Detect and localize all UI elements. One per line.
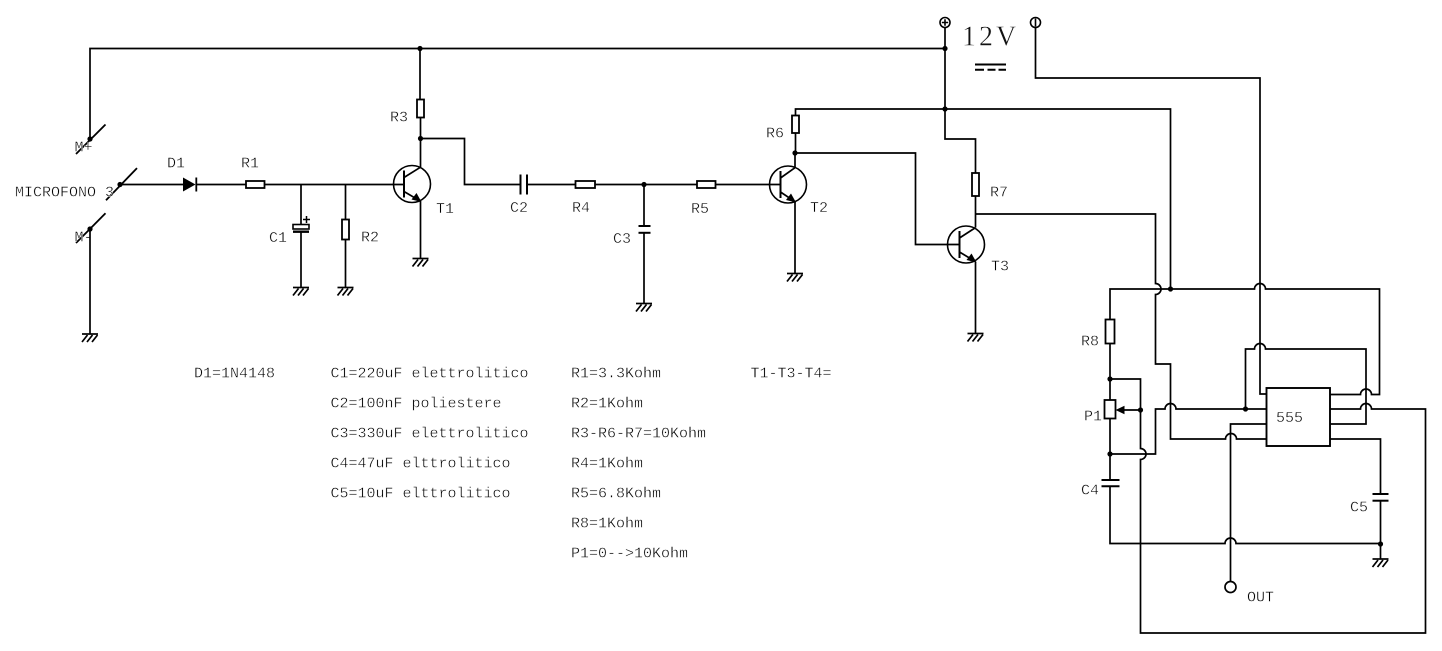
ground under C3 [636, 304, 652, 312]
svg-text:C3: C3 [613, 231, 631, 248]
ground under T1 [413, 259, 429, 267]
svg-text:R7: R7 [990, 185, 1008, 202]
svg-text:R4: R4 [572, 200, 590, 217]
potentiometer P1 [1105, 400, 1141, 419]
wire microphone to D1 [120, 184, 183, 186]
svg-text:C2=100nF poliestere: C2=100nF poliestere [331, 396, 502, 413]
wire R7 junction to 555 pin2 (left pin y439) [976, 214, 1267, 439]
transistor T2 [770, 166, 807, 203]
ground under C1 [293, 288, 309, 296]
svg-text:OUT: OUT [1247, 590, 1274, 607]
capacitor C3 [639, 226, 651, 233]
wire R6 bottom to dot [795, 133, 797, 153]
svg-text:R4=1Kohm: R4=1Kohm [571, 456, 643, 473]
svg-text:T1-T3-T4=: T1-T3-T4= [751, 366, 832, 383]
wire top supply rail [90, 49, 945, 140]
svg-text:T1: T1 [436, 201, 454, 218]
resistor R6 [792, 116, 799, 134]
wire T2 emitter to ground [794, 202, 796, 274]
resistor R1 [246, 181, 265, 188]
IC 555 [1267, 388, 1331, 446]
svg-text:555: 555 [1276, 410, 1303, 427]
node junction dot C5 ground [1378, 541, 1383, 546]
wire P1 bottom to C4 [1109, 419, 1111, 481]
ground under T3 [968, 334, 984, 342]
ground under T2 [787, 274, 803, 282]
wire P1 wiper outer loop to 555 pin7 (right y409) [1141, 404, 1426, 633]
wire C5 to ground dot [1380, 501, 1382, 559]
wire C4 bottom to C5 ground line [1110, 486, 1381, 543]
wire T2 collector to T3 base [795, 153, 960, 245]
ground under R2 [338, 288, 354, 296]
svg-text:R3: R3 [390, 110, 408, 127]
node junction dot T1 collector [418, 136, 423, 141]
svg-text:T2: T2 [810, 200, 828, 217]
node junction dot at R3 top rail [417, 46, 422, 51]
node junction dot supply to R8 line [1168, 286, 1173, 291]
wire + terminal down to R7 [945, 28, 976, 174]
svg-text:R5: R5 [691, 201, 709, 218]
node junction dot T2 collector [792, 150, 797, 155]
svg-text:P1: P1 [1084, 409, 1102, 426]
capacitor C2 [521, 175, 528, 195]
svg-text:R1=3.3Kohm: R1=3.3Kohm [571, 366, 661, 383]
wire M- to ground [89, 229, 91, 334]
svg-text:R8: R8 [1081, 334, 1099, 351]
wire threshold up over 555 to right pin y424 [1246, 344, 1367, 425]
terminal I [1031, 18, 1041, 28]
svg-text:C1=220uF elettrolitico: C1=220uF elettrolitico [331, 366, 529, 383]
node junction dot threshold [1243, 406, 1248, 411]
wire R4 to R5 [595, 184, 697, 186]
node junction dot P1 bottom [1107, 451, 1112, 456]
node junction dot P1 wiper [1138, 407, 1143, 412]
wire R8 bottom to P1 top [1109, 344, 1111, 401]
node junction dot at + terminal rail [942, 46, 947, 51]
svg-text:P1=0-->10Kohm: P1=0-->10Kohm [571, 546, 688, 563]
resistor R5 [697, 181, 716, 188]
wire T2 collector [794, 153, 796, 168]
power terminal plus [940, 18, 950, 28]
resistor R7 [972, 173, 979, 196]
svg-text:C2: C2 [510, 200, 528, 217]
wire C2 to R4 [527, 184, 576, 186]
svg-text:C4=47uF elttrolitico: C4=47uF elttrolitico [331, 456, 511, 473]
svg-text:12V: 12V [962, 22, 1019, 53]
diode D1 [183, 178, 196, 192]
node junction dot supply at R6 rail [942, 106, 947, 111]
wire C1 branch [300, 185, 302, 288]
ground under M- [82, 334, 98, 342]
wire R1 to T1 base [265, 184, 405, 186]
battery DC symbol [975, 65, 1006, 70]
switch M+ [76, 125, 106, 155]
svg-text:T3: T3 [991, 259, 1009, 276]
resistor R4 [576, 181, 596, 188]
svg-text:C5: C5 [1350, 500, 1368, 517]
terminal OUT circle [1225, 582, 1236, 593]
resistor R8 [1106, 320, 1115, 344]
svg-text:R2: R2 [361, 230, 379, 247]
node junction dot R8-P1 [1107, 376, 1112, 381]
wire T3 emitter to ground [975, 262, 977, 334]
wire 555 pin1 to C5 [1330, 439, 1381, 494]
capacitor C1 [293, 216, 310, 232]
ground under C5 [1373, 559, 1389, 567]
transistor T1 [394, 166, 431, 203]
svg-text:R8=1Kohm: R8=1Kohm [571, 516, 643, 533]
wire T1 emitter to ground [420, 201, 422, 258]
svg-text:C4: C4 [1081, 483, 1099, 500]
svg-text:R3-R6-R7=10Kohm: R3-R6-R7=10Kohm [571, 426, 706, 443]
resistor R2 [342, 220, 349, 240]
wire R2 branch [345, 185, 347, 288]
wire R8 dot to wiper [1110, 379, 1141, 410]
svg-text:D1: D1 [167, 156, 185, 173]
capacitor C5 [1373, 494, 1389, 501]
svg-text:R6: R6 [766, 126, 784, 143]
capacitor C4 [1102, 480, 1120, 486]
svg-text:R1: R1 [241, 156, 259, 173]
switch M- [76, 213, 106, 243]
wire R5 to T2 base [716, 184, 781, 186]
svg-text:C5=10uF elttrolitico: C5=10uF elttrolitico [331, 486, 511, 503]
svg-text:C1: C1 [269, 230, 287, 247]
wire 555 output pin to OUT [1231, 424, 1267, 582]
wire R6 top to supply [796, 109, 1171, 289]
svg-text:C3=330uF elettrolitico: C3=330uF elettrolitico [331, 426, 529, 443]
wire C3 branch [643, 185, 645, 304]
transistor T3 [948, 226, 985, 263]
node junction dot C3 [641, 182, 646, 187]
wire T1 collector jog to C2 [421, 139, 521, 185]
svg-text:R5=6.8Kohm: R5=6.8Kohm [571, 486, 661, 503]
svg-text:D1=1N4148: D1=1N4148 [194, 366, 275, 383]
wire supply rail to R8 and 555 pin8 [1110, 284, 1380, 395]
wire trigger line P1 bottom to 555 pin6 (left y409) [1110, 404, 1267, 454]
wire D1 to R1 [196, 184, 246, 186]
wire I terminal to 555 pin4 [1036, 28, 1267, 395]
wire R7 to T3 collector [975, 196, 977, 228]
wire R3 to T1 collector [420, 118, 422, 168]
resistor R3 [417, 100, 424, 118]
svg-text:MICROFONO 3: MICROFONO 3 [15, 185, 114, 202]
switch microphone pivot [106, 168, 137, 200]
wire rail to R3 [419, 49, 421, 100]
svg-text:M+: M+ [75, 140, 93, 157]
svg-text:R2=1Kohm: R2=1Kohm [571, 396, 643, 413]
